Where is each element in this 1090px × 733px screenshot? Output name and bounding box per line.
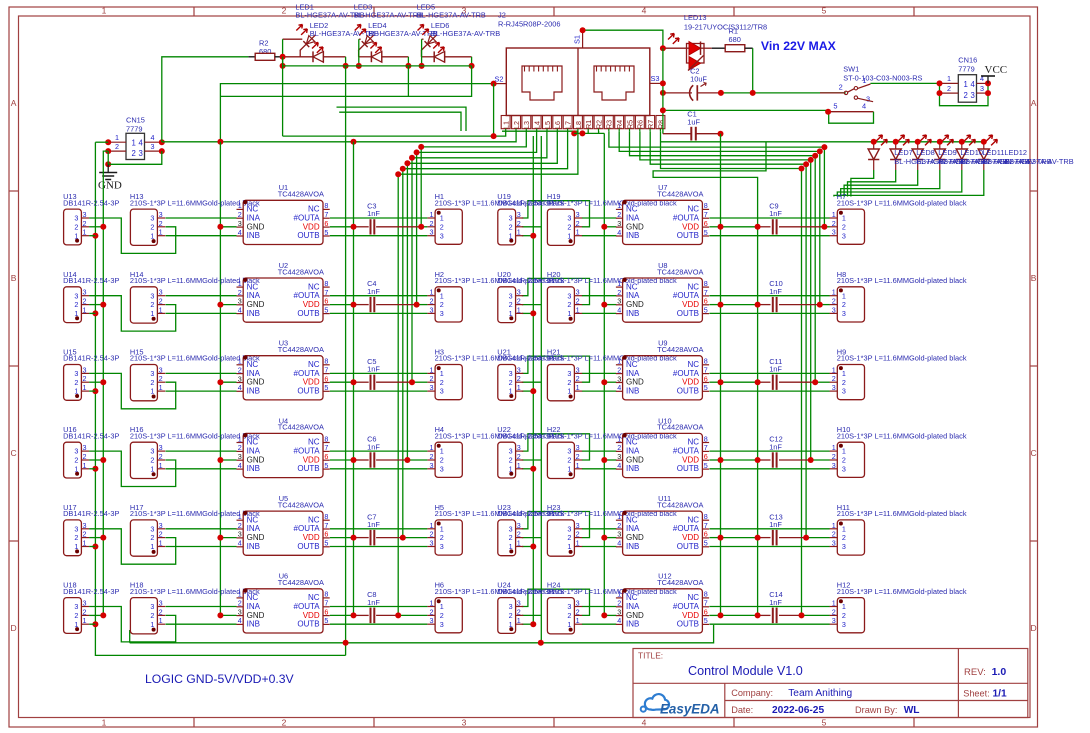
- svg-text:1nF: 1nF: [367, 520, 380, 529]
- svg-text:Sheet:: Sheet:: [963, 689, 990, 699]
- svg-text:3: 3: [462, 718, 467, 728]
- wire row6 H18.1 to INB: [166, 623, 237, 625]
- svg-text:INB: INB: [247, 620, 260, 629]
- svg-text:2: 2: [517, 530, 521, 539]
- svg-text:TC4428AVOA: TC4428AVOA: [657, 500, 703, 509]
- svg-text:3: 3: [430, 616, 434, 625]
- svg-text:INB: INB: [626, 464, 639, 473]
- svg-text:#OUTA: #OUTA: [294, 447, 321, 456]
- wire LED1 column down: [345, 66, 347, 656]
- svg-text:3: 3: [83, 521, 87, 530]
- svg-text:2: 2: [440, 222, 444, 231]
- svg-text:8: 8: [324, 357, 328, 366]
- svg-text:VDD: VDD: [303, 222, 320, 231]
- wire row5 U17.2 to bus: [89, 537, 103, 539]
- svg-text:BL-HGE37A-AV-TRB: BL-HGE37A-AV-TRB: [417, 11, 486, 20]
- header H13 (210S-1*3P L=11.6MMGold-plated black): [130, 192, 260, 245]
- J2 pins R1-R8: [584, 116, 666, 132]
- svg-text:3: 3: [567, 369, 571, 378]
- junction row4 GND bus: [217, 457, 223, 463]
- svg-text:2: 2: [430, 219, 434, 228]
- svg-text:NC: NC: [626, 205, 638, 214]
- svg-text:2: 2: [576, 219, 580, 228]
- svg-text:2: 2: [150, 378, 154, 387]
- svg-text:GND: GND: [626, 611, 644, 620]
- svg-text:INB: INB: [247, 387, 260, 396]
- svg-text:INA: INA: [247, 291, 261, 300]
- svg-text:1: 1: [159, 616, 163, 625]
- wire row1 OUTB to H1.3: [330, 235, 428, 237]
- wire row3 U21.3 jog over: [522, 356, 590, 382]
- svg-text:3: 3: [430, 305, 434, 314]
- svg-text:EasyEDA: EasyEDA: [660, 701, 720, 716]
- junction LED7 anode: [871, 139, 877, 145]
- op-amp driver IC U12 (TC4428AVOA): [616, 572, 709, 633]
- wire bottom rail: [130, 625, 714, 643]
- svg-text:5: 5: [324, 305, 328, 314]
- svg-text:VDD: VDD: [682, 611, 699, 620]
- wire row6 U18.1 to GND bus: [89, 623, 95, 625]
- wire L-pin bus: [502, 130, 578, 132]
- svg-text:C: C: [11, 448, 17, 458]
- svg-text:3: 3: [159, 288, 163, 297]
- svg-text:1: 1: [862, 76, 866, 85]
- svg-text:4: 4: [238, 539, 242, 548]
- svg-text:1: 1: [567, 231, 571, 240]
- svg-text:NC: NC: [626, 593, 638, 602]
- svg-text:4: 4: [642, 718, 647, 728]
- svg-text:1: 1: [159, 539, 163, 548]
- svg-text:L2: L2: [512, 121, 521, 129]
- svg-text:A: A: [1031, 98, 1037, 108]
- svg-text:1: 1: [617, 357, 621, 366]
- svg-text:NC: NC: [247, 515, 259, 524]
- wire row3 VDD to cap C5: [330, 381, 428, 383]
- wire C2 leads: [663, 92, 721, 94]
- wire row5 H23.1 to INB: [582, 546, 617, 548]
- wire row3 H15.3 to INA: [166, 372, 237, 374]
- svg-text:3: 3: [842, 309, 846, 318]
- svg-text:2: 2: [159, 219, 163, 228]
- svg-text:1: 1: [238, 201, 242, 210]
- header H23 (210S-1*3P L=11.6MMGold-plated black): [547, 503, 677, 556]
- svg-text:#OUTA: #OUTA: [673, 369, 700, 378]
- svg-text:3: 3: [440, 620, 444, 629]
- wire LED8 cathode route: [848, 170, 896, 197]
- svg-text:#OUTA: #OUTA: [294, 602, 321, 611]
- svg-text:1: 1: [430, 443, 434, 452]
- wire row6 U24.3 jog over: [522, 589, 590, 615]
- svg-text:7: 7: [324, 443, 328, 452]
- svg-text:2: 2: [567, 456, 571, 465]
- wire row3 H21.3 to INA: [582, 372, 617, 374]
- svg-text:5: 5: [324, 461, 328, 470]
- svg-text:BL-HGE37A-AV-TRB: BL-HGE37A-AV-TRB: [431, 29, 500, 38]
- header H24 (210S-1*3P L=11.6MMGold-plated black): [547, 581, 677, 634]
- junction row1 U19 pins: [530, 233, 536, 239]
- wire LED5 anode: [422, 38, 424, 40]
- svg-text:2: 2: [617, 443, 621, 452]
- header H20 (210S-1*3P L=11.6MMGold-plated black): [547, 270, 677, 323]
- svg-text:4: 4: [238, 305, 242, 314]
- svg-text:2: 2: [150, 222, 154, 231]
- svg-text:3: 3: [509, 447, 513, 456]
- wire cap rail feed right: [653, 142, 766, 616]
- svg-text:3: 3: [159, 521, 163, 530]
- svg-text:5: 5: [324, 616, 328, 625]
- svg-text:1: 1: [102, 6, 107, 16]
- svg-text:7779: 7779: [126, 125, 142, 134]
- wire SW1 pin1 to CN16: [871, 82, 940, 84]
- capacitor C7 (1nF): [367, 512, 380, 545]
- svg-text:1: 1: [617, 201, 621, 210]
- svg-text:2: 2: [83, 530, 87, 539]
- svg-text:2: 2: [842, 222, 846, 231]
- svg-text:4: 4: [238, 616, 242, 625]
- wire LED5 cathode down: [420, 51, 422, 57]
- junction row3 cap-H3 node: [409, 379, 415, 385]
- svg-text:3: 3: [440, 387, 444, 396]
- wire LED routing jog 2: [337, 107, 467, 131]
- svg-text:7: 7: [704, 365, 708, 374]
- resistor R2 (680): [248, 39, 282, 61]
- svg-text:INA: INA: [247, 602, 261, 611]
- wire R1 pin drop: [587, 131, 589, 133]
- wire row6 OUTB to H12.3: [709, 623, 829, 625]
- svg-text:2: 2: [832, 374, 836, 383]
- wire row3 #OUTA to H9.1: [709, 372, 829, 374]
- wire row1 #OUTA to H1.1: [330, 217, 428, 219]
- wire row1 U13.3 jog: [89, 218, 176, 253]
- svg-text:3: 3: [517, 443, 521, 452]
- svg-text:2: 2: [83, 607, 87, 616]
- wire row4 H16.1 to INB: [166, 468, 237, 470]
- wire row1 U19.3 jog over: [522, 201, 590, 227]
- svg-text:2: 2: [282, 6, 287, 16]
- svg-text:DB141R-2.54-3P: DB141R-2.54-3P: [63, 587, 119, 596]
- svg-text:#OUTA: #OUTA: [294, 369, 321, 378]
- wire row6 VDD to cap C8: [330, 614, 428, 616]
- svg-text:2: 2: [74, 611, 78, 620]
- header H18 (210S-1*3P L=11.6MMGold-plated black): [130, 581, 260, 634]
- svg-text:DB141R-2.54-3P: DB141R-2.54-3P: [63, 354, 119, 363]
- svg-text:210S-1*3P L=11.6MMGold-plated: 210S-1*3P L=11.6MMGold-plated black: [837, 198, 967, 207]
- wire LED10 cathode route: [841, 170, 940, 197]
- wire GND bus right (x=604.3): [603, 133, 605, 615]
- svg-text:INB: INB: [626, 542, 639, 551]
- op-amp driver IC U3 (TC4428AVOA): [237, 339, 330, 400]
- junction Vin rail: [660, 90, 666, 96]
- svg-text:8: 8: [704, 357, 708, 366]
- wire row6 IC GND to bus: [220, 614, 236, 616]
- svg-text:3: 3: [83, 288, 87, 297]
- header H15 (210S-1*3P L=11.6MMGold-plated black): [130, 348, 260, 401]
- wire row4 #OUTA to H10.1: [709, 450, 829, 452]
- wire LED column 2 output to rail: [407, 57, 409, 66]
- connector U18 (DB141R-2.54-3P): [63, 581, 119, 634]
- wire row1 IC GND to bus: [220, 226, 236, 228]
- svg-text:5: 5: [704, 305, 708, 314]
- svg-text:5: 5: [704, 383, 708, 392]
- svg-text:210S-1*3P L=11.6MMGold-plated: 210S-1*3P L=11.6MMGold-plated black: [837, 509, 967, 518]
- svg-text:1nF: 1nF: [769, 287, 782, 296]
- svg-text:3: 3: [567, 214, 571, 223]
- svg-text:2: 2: [842, 456, 846, 465]
- svg-text:#OUTA: #OUTA: [294, 213, 321, 222]
- connector U20 (DB141R-2.54-3P): [497, 270, 553, 323]
- svg-text:1: 1: [517, 539, 521, 548]
- svg-text:2: 2: [509, 456, 513, 465]
- svg-text:LED7: LED7: [894, 148, 913, 157]
- wire row4 #OUTA to H4.1: [330, 450, 428, 452]
- header H5 (210S-1*3P L=11.6MMGold-plated black): [427, 503, 564, 555]
- junction col1 nodes: [280, 63, 349, 69]
- junction SW1 bracket: [825, 109, 831, 115]
- connector U15 (DB141R-2.54-3P): [63, 348, 119, 401]
- wire row5 U23.1 to bus: [522, 546, 534, 548]
- capacitor C4 (1nF): [367, 279, 380, 312]
- wire row2 IC8 GND to bus: [604, 304, 616, 306]
- svg-text:3: 3: [440, 542, 444, 551]
- op-amp driver IC U8 (TC4428AVOA): [616, 261, 709, 322]
- svg-text:2: 2: [115, 142, 119, 151]
- svg-text:7: 7: [324, 521, 328, 530]
- svg-text:1: 1: [238, 279, 242, 288]
- svg-text:3: 3: [74, 214, 78, 223]
- svg-text:3: 3: [517, 365, 521, 374]
- header H22 (210S-1*3P L=11.6MMGold-plated black): [547, 425, 677, 478]
- svg-text:INA: INA: [626, 213, 640, 222]
- wire row6 #OUTA to H12.1: [709, 606, 829, 608]
- svg-text:3: 3: [159, 210, 163, 219]
- svg-text:2: 2: [238, 210, 242, 219]
- wire S1 to LED13: [583, 30, 663, 48]
- wire R2 node down: [282, 57, 284, 136]
- svg-text:1: 1: [150, 309, 154, 318]
- svg-text:DB141R-2.54-3P: DB141R-2.54-3P: [497, 198, 553, 207]
- wire row2 U14.1 to GND bus: [89, 312, 95, 314]
- svg-text:R1: R1: [584, 120, 593, 129]
- svg-text:NC: NC: [687, 593, 699, 602]
- wire row2 H20.1 to INB: [582, 312, 617, 314]
- header H4 (210S-1*3P L=11.6MMGold-plated black): [427, 425, 564, 477]
- capacitor C9 (1nF): [769, 202, 782, 235]
- wire VDD bus right (x=720.5): [720, 134, 722, 616]
- svg-text:7: 7: [704, 288, 708, 297]
- wire row1 H13.3 to INA: [166, 217, 237, 219]
- svg-text:2: 2: [509, 300, 513, 309]
- wire row1 H19.1 to INB: [582, 235, 617, 237]
- capacitor C2 (10uF) polarized: [690, 67, 708, 101]
- wire row3 OUTB to H3.3: [330, 390, 428, 392]
- svg-text:1nF: 1nF: [367, 365, 380, 374]
- svg-text:8: 8: [704, 590, 708, 599]
- svg-text:1: 1: [832, 288, 836, 297]
- svg-text:3: 3: [238, 219, 242, 228]
- svg-text:3: 3: [74, 369, 78, 378]
- junction dots CN15: [105, 139, 111, 145]
- svg-text:3: 3: [517, 210, 521, 219]
- svg-text:2: 2: [150, 300, 154, 309]
- capacitor C10 (1nF): [769, 279, 783, 312]
- junction LED13 anode: [660, 45, 666, 51]
- svg-text:680: 680: [729, 35, 741, 44]
- svg-text:NC: NC: [687, 282, 699, 291]
- junction bottom rail: [343, 640, 349, 646]
- wire row5 #OUTA to H5.1: [330, 528, 428, 530]
- svg-text:7: 7: [324, 288, 328, 297]
- svg-text:OUTB: OUTB: [297, 387, 319, 396]
- svg-text:1: 1: [159, 383, 163, 392]
- svg-text:TC4428AVOA: TC4428AVOA: [278, 578, 324, 587]
- svg-text:5: 5: [324, 228, 328, 237]
- connector CN16 (7779): [940, 56, 989, 103]
- svg-text:ST-0-103-C03-N003-RS: ST-0-103-C03-N003-RS: [843, 74, 922, 83]
- svg-text:4: 4: [617, 461, 621, 470]
- svg-text:2: 2: [150, 611, 154, 620]
- wire row1 U19.2 to bus: [522, 226, 542, 228]
- svg-text:3: 3: [430, 228, 434, 237]
- wire LED6 leads: [422, 56, 472, 58]
- svg-text:L7: L7: [564, 121, 573, 129]
- junction row6 VDD/cap: [351, 612, 357, 618]
- svg-text:#OUTA: #OUTA: [294, 524, 321, 533]
- svg-text:3: 3: [576, 443, 580, 452]
- J2 pins L1-L8: [501, 116, 583, 132]
- svg-text:3: 3: [617, 607, 621, 616]
- svg-text:2: 2: [440, 456, 444, 465]
- svg-text:1: 1: [430, 365, 434, 374]
- svg-text:1nF: 1nF: [367, 442, 380, 451]
- svg-text:8: 8: [704, 201, 708, 210]
- svg-text:1: 1: [150, 620, 154, 629]
- svg-text:2: 2: [839, 83, 843, 92]
- svg-text:L3: L3: [522, 121, 531, 129]
- svg-text:OUTB: OUTB: [677, 309, 699, 318]
- wire row2 OUTB to H8.3: [709, 312, 829, 314]
- svg-text:TC4428AVOA: TC4428AVOA: [278, 423, 324, 432]
- svg-text:2: 2: [509, 222, 513, 231]
- junction row6 U18 pins: [100, 612, 106, 618]
- svg-text:LED12: LED12: [1004, 148, 1027, 157]
- svg-text:1: 1: [238, 512, 242, 521]
- svg-text:LED9: LED9: [938, 148, 957, 157]
- svg-text:DB141R-2.54-3P: DB141R-2.54-3P: [497, 276, 553, 285]
- svg-text:GND: GND: [626, 533, 644, 542]
- junction LED8 anode: [893, 139, 899, 145]
- svg-text:3: 3: [617, 219, 621, 228]
- svg-text:DB141R-2.54-3P: DB141R-2.54-3P: [497, 509, 553, 518]
- svg-text:LED11: LED11: [982, 148, 1004, 157]
- wire row4 OUTB to H4.3: [330, 468, 428, 470]
- svg-text:2: 2: [509, 533, 513, 542]
- svg-text:8: 8: [324, 201, 328, 210]
- wire row5 U23.3 jog over: [522, 512, 590, 538]
- svg-text:R8: R8: [656, 120, 665, 129]
- svg-text:4: 4: [862, 102, 866, 111]
- LED LED5 (BL-HGE37A-AV-TRB) 45deg: [417, 3, 486, 54]
- svg-text:2: 2: [617, 599, 621, 608]
- svg-text:3: 3: [576, 365, 580, 374]
- svg-text:1: 1: [832, 443, 836, 452]
- wire row2 U20.2 to bus: [522, 304, 542, 306]
- svg-text:5: 5: [704, 228, 708, 237]
- svg-text:7: 7: [324, 210, 328, 219]
- svg-text:680: 680: [259, 47, 271, 56]
- wire row2 H14.1 to INB: [166, 312, 237, 314]
- svg-text:VDD: VDD: [682, 300, 699, 309]
- wire LED column 1 output to rail: [345, 57, 347, 66]
- wire row4 U22.3 jog over: [522, 434, 590, 460]
- svg-text:5: 5: [324, 539, 328, 548]
- wire row3 U21.2 to bus: [522, 381, 542, 383]
- svg-text:VDD: VDD: [682, 533, 699, 542]
- op-amp driver IC U9 (TC4428AVOA): [616, 339, 709, 400]
- svg-text:3: 3: [617, 297, 621, 306]
- svg-text:3: 3: [842, 620, 846, 629]
- wire LED2 leads: [283, 56, 346, 58]
- junction S1 corner: [580, 27, 586, 33]
- header H12 (210S-1*3P L=11.6MMGold-plated black): [830, 581, 967, 633]
- junction row1 cap-H1 node: [418, 224, 424, 230]
- svg-text:TC4428AVOA: TC4428AVOA: [657, 345, 703, 354]
- svg-text:6: 6: [704, 452, 708, 461]
- svg-text:2: 2: [517, 219, 521, 228]
- wire row5 H23.3 to INA: [582, 528, 617, 530]
- svg-text:1: 1: [576, 539, 580, 548]
- svg-text:1: 1: [832, 599, 836, 608]
- svg-text:GND: GND: [247, 378, 265, 387]
- pin S1 top: [573, 30, 583, 48]
- wire LED12 cathode route: [834, 170, 984, 197]
- svg-text:INA: INA: [626, 291, 640, 300]
- svg-text:3: 3: [83, 443, 87, 452]
- wire row2 U14.2 to bus: [89, 304, 103, 306]
- svg-text:3: 3: [159, 599, 163, 608]
- svg-text:2: 2: [150, 456, 154, 465]
- wire rail end down to routing: [221, 66, 472, 97]
- svg-text:VDD: VDD: [303, 533, 320, 542]
- wire row2 U20.3 jog over: [522, 278, 590, 304]
- svg-text:5: 5: [704, 539, 708, 548]
- svg-text:2: 2: [576, 297, 580, 306]
- switch SW1 (ST-0-103-C03-N003-RS): [820, 65, 923, 124]
- svg-text:3: 3: [617, 374, 621, 383]
- junction row1 VDD/cap: [351, 224, 357, 230]
- svg-text:L4: L4: [533, 121, 542, 129]
- svg-text:DB141R-2.54-3P: DB141R-2.54-3P: [497, 431, 553, 440]
- svg-text:3: 3: [74, 524, 78, 533]
- svg-text:2: 2: [430, 452, 434, 461]
- svg-text:REV:: REV:: [964, 667, 986, 678]
- svg-text:2: 2: [238, 288, 242, 297]
- svg-text:2: 2: [440, 378, 444, 387]
- svg-text:1: 1: [238, 357, 242, 366]
- svg-text:3: 3: [832, 228, 836, 237]
- junction S2 stub: [491, 81, 497, 87]
- wire row5 IC11 GND to bus: [604, 537, 616, 539]
- junction row4 VDD right: [718, 457, 724, 463]
- svg-text:B: B: [11, 273, 17, 283]
- svg-text:NC: NC: [308, 438, 320, 447]
- svg-text:R3: R3: [605, 120, 614, 129]
- svg-text:7: 7: [704, 521, 708, 530]
- svg-text:3: 3: [567, 447, 571, 456]
- svg-text:3: 3: [576, 210, 580, 219]
- svg-text:NC: NC: [247, 593, 259, 602]
- wire Vin rail to switch: [721, 92, 846, 94]
- svg-text:1: 1: [947, 74, 951, 83]
